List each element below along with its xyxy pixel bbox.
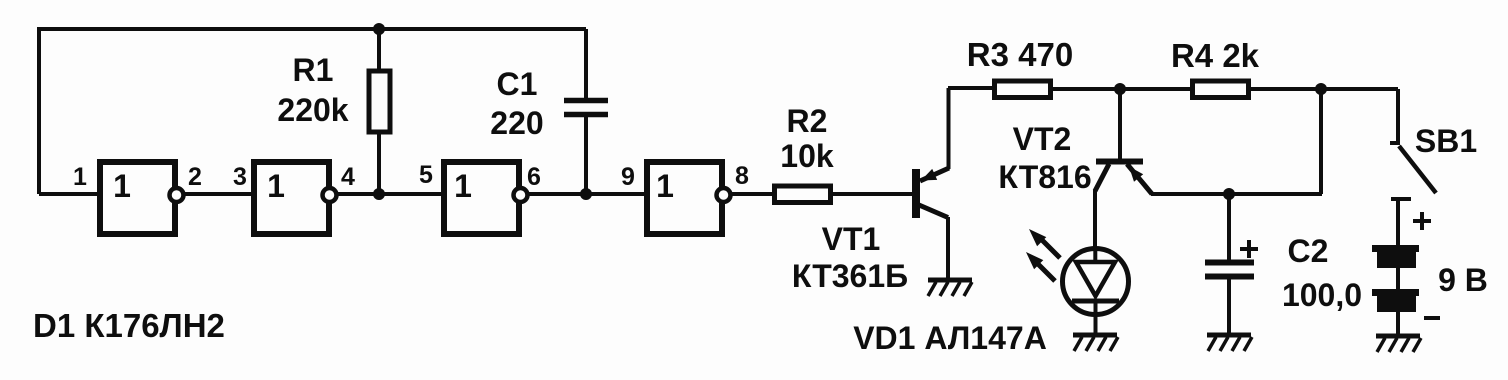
inverter gate D1.4 — [647, 162, 731, 234]
ground below battery — [1376, 336, 1421, 352]
svg-text:C2: C2 — [1288, 233, 1329, 269]
wire VT2 emitter rail — [1151, 192, 1322, 196]
wire input to gate 1 — [39, 192, 100, 196]
ground below VD1 — [1073, 335, 1118, 351]
svg-text:5: 5 — [419, 161, 433, 189]
transistor VT2 — [1095, 89, 1152, 248]
svg-text:VD1 АЛ147А: VD1 АЛ147А — [853, 320, 1047, 356]
svg-text:R4 2k: R4 2k — [1171, 37, 1260, 74]
wire gate2 out to gate3 in — [337, 192, 444, 196]
svg-text:1: 1 — [656, 168, 674, 204]
svg-text:10k: 10k — [780, 138, 834, 174]
capacitor C1 — [564, 29, 608, 194]
wire R3 to R4 — [1051, 87, 1192, 91]
inverter gate D1.1 — [100, 162, 184, 234]
svg-text:КТ816: КТ816 — [998, 159, 1091, 195]
node C2 junction — [1223, 188, 1235, 200]
wire R2 to VT1 base — [831, 192, 913, 196]
svg-text:3: 3 — [233, 163, 247, 191]
svg-text:VT1: VT1 — [822, 221, 881, 257]
wire top feedback rail — [39, 29, 586, 194]
switch SB1 — [1390, 89, 1436, 246]
resistor R4 — [1193, 81, 1249, 98]
svg-text:R3 470: R3 470 — [967, 36, 1073, 73]
battery GB 9V — [1372, 212, 1440, 335]
svg-text:220k: 220k — [277, 92, 348, 128]
wire VT1 emitter to R3 — [948, 86, 992, 90]
svg-text:R2: R2 — [787, 103, 828, 139]
svg-text:D1 К176ЛН2: D1 К176ЛН2 — [33, 307, 225, 344]
svg-text:9: 9 — [621, 163, 635, 191]
wire R4 to SB1 — [1249, 87, 1398, 91]
inverter gate D1.3 — [444, 162, 528, 234]
resistor R2 — [775, 186, 831, 203]
wire gate3 out to gate4 in — [528, 192, 647, 196]
node R1 top junction — [373, 23, 385, 35]
node R1 bottom junction — [373, 188, 385, 200]
svg-text:4: 4 — [341, 163, 355, 191]
capacitor C2 — [1205, 194, 1258, 334]
resistor R3 — [995, 81, 1051, 98]
svg-text:КТ361Б: КТ361Б — [792, 258, 908, 294]
inverter gate D1.2 — [254, 162, 337, 234]
transistor VT1 — [912, 88, 949, 280]
svg-text:1: 1 — [454, 168, 472, 204]
svg-text:C1: C1 — [497, 66, 538, 102]
LED emission arrows — [1026, 229, 1060, 281]
node right rail junction — [1315, 83, 1327, 95]
svg-text:VT2: VT2 — [1013, 121, 1072, 157]
wire right rail drop — [1319, 89, 1323, 194]
svg-text:1: 1 — [73, 163, 87, 191]
svg-text:1: 1 — [113, 168, 131, 204]
ground below C2 — [1207, 335, 1252, 351]
svg-text:SB1: SB1 — [1415, 123, 1477, 159]
node VT2 base junction — [1114, 83, 1126, 95]
ground below VT1 — [928, 280, 972, 296]
svg-text:9 В: 9 В — [1438, 262, 1488, 298]
svg-text:1: 1 — [267, 168, 285, 204]
svg-text:100,0: 100,0 — [1282, 277, 1362, 313]
svg-text:8: 8 — [735, 162, 749, 190]
wire gate4 out to R2 — [731, 192, 774, 196]
svg-text:6: 6 — [527, 163, 541, 191]
node C1 bottom junction — [580, 188, 592, 200]
wire gate1 out to gate2 in — [184, 192, 254, 196]
svg-text:2: 2 — [188, 163, 202, 191]
LED VD1 — [1063, 249, 1129, 335]
svg-text:R1: R1 — [293, 52, 334, 88]
resistor R1 — [369, 29, 390, 194]
svg-text:220: 220 — [490, 105, 543, 141]
